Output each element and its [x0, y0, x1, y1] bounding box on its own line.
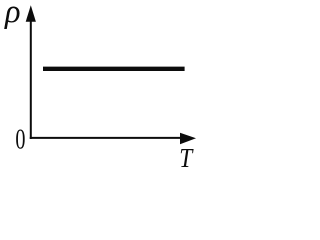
x-axis (horizontal line)	[30, 137, 182, 139]
x-axis arrowhead	[180, 133, 196, 145]
svg-text:0: 0	[15, 124, 25, 155]
svg-text:ρ: ρ	[4, 0, 21, 30]
y-axis (vertical line)	[30, 18, 32, 139]
y-axis arrowhead	[26, 5, 36, 22]
svg-text:T: T	[179, 142, 194, 172]
data line: constant resistivity	[43, 67, 185, 71]
